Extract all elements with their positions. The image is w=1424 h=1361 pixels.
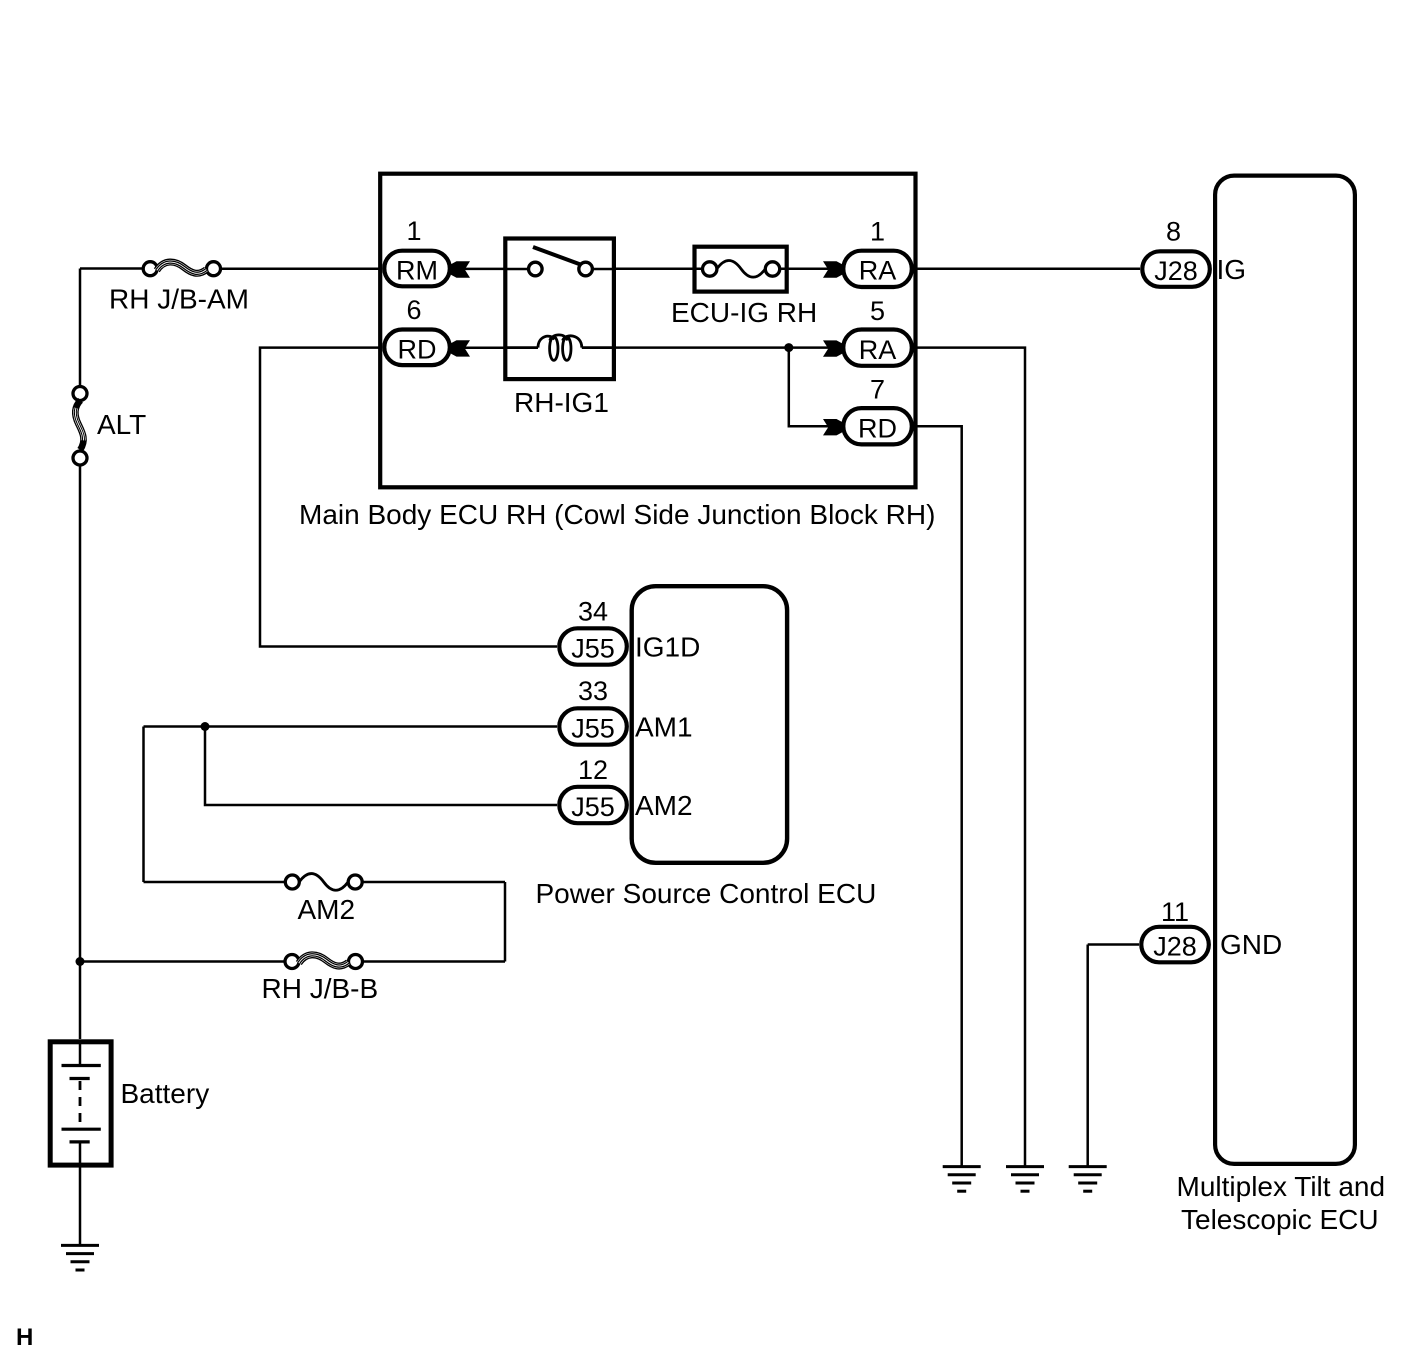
svg-text:RH J/B-B: RH J/B-B: [262, 973, 379, 1004]
fuse ECU-IG RH: [693, 247, 790, 292]
arrow into RD7: [823, 419, 843, 435]
svg-text:RM: RM: [396, 256, 438, 286]
fusible link ALT: [73, 387, 87, 466]
wire coil to RA5: [616, 346, 829, 349]
svg-text:ALT: ALT: [97, 409, 146, 440]
wire battery feed top horizontal: [80, 267, 382, 270]
svg-text:RD: RD: [858, 413, 897, 443]
relay switch contacts: [529, 262, 543, 276]
svg-text:Power Source Control ECU: Power Source Control ECU: [536, 878, 877, 909]
arrow into RM: [450, 261, 470, 277]
wire AM1 down to AM2 fuse: [142, 727, 145, 883]
svg-text:IG1D: IG1D: [635, 632, 700, 663]
fusible link RH J/B-B: [285, 955, 363, 969]
svg-text:J55: J55: [571, 634, 615, 664]
svg-text:AM1: AM1: [635, 712, 693, 743]
svg-text:12: 12: [578, 755, 608, 785]
svg-text:6: 6: [406, 295, 421, 325]
wire AM1 to J55 pin 33: [144, 725, 558, 728]
svg-text:33: 33: [578, 676, 608, 706]
arrow into RA1: [823, 261, 843, 277]
wire RM arrow to relay: [465, 268, 504, 271]
svg-text:RH-IG1: RH-IG1: [514, 387, 609, 418]
pin J28 (8): [1142, 251, 1210, 286]
wire RH J/B-B row: [80, 960, 505, 963]
pin RA (5): [843, 330, 912, 366]
svg-text:RA: RA: [859, 335, 897, 365]
svg-text:Main Body ECU RH (Cowl Side Ju: Main Body ECU RH (Cowl Side Junction Blo…: [299, 499, 935, 530]
svg-text:34: 34: [578, 597, 608, 627]
relay RH-IG1 box: [505, 239, 614, 380]
ground 2 (RA5): [1006, 1167, 1044, 1192]
svg-text:GND: GND: [1220, 929, 1282, 960]
pin RM (1): [384, 251, 450, 287]
junction node battery / RH J/B-B: [76, 957, 85, 966]
svg-text:J28: J28: [1154, 256, 1198, 286]
pin J55 (34): [559, 628, 627, 664]
ground 3 (J28 GND): [1069, 1167, 1107, 1192]
svg-text:H: H: [16, 1324, 33, 1351]
wire fuse to RA1: [789, 267, 828, 270]
wire AM2 fuse row: [144, 881, 506, 884]
pin J55 (33): [559, 708, 627, 744]
wire RA5 to ground 2: [914, 348, 1025, 1167]
fusible link RH J/B-AM: [143, 262, 220, 276]
pin RD (6): [384, 330, 450, 366]
wire RA1 to J28 pin 8: [914, 267, 1140, 270]
svg-text:AM2: AM2: [635, 790, 693, 821]
svg-text:Battery: Battery: [121, 1078, 210, 1109]
svg-text:RA: RA: [859, 256, 897, 286]
wire battery to ground: [79, 1142, 82, 1246]
wire relay to fuse: [616, 267, 693, 270]
pin RA (1): [843, 251, 912, 287]
relay coil: [504, 335, 617, 360]
svg-text:8: 8: [1166, 217, 1181, 247]
svg-text:7: 7: [870, 375, 885, 405]
wire RD6 arrow to relay coil: [465, 347, 504, 350]
Power Source Control ECU box: [632, 586, 787, 863]
svg-text:1: 1: [870, 217, 885, 247]
relay switch contact wires: [504, 268, 617, 271]
pin J28 (11): [1141, 927, 1209, 963]
svg-text:11: 11: [1161, 897, 1189, 927]
wire J28 pin 11 to ground 3: [1088, 945, 1139, 1167]
svg-text:AM2: AM2: [298, 894, 356, 925]
svg-text:5: 5: [870, 296, 885, 326]
svg-text:ECU-IG RH: ECU-IG RH: [671, 297, 817, 328]
svg-text:RD: RD: [398, 335, 437, 365]
svg-text:RH J/B-AM: RH J/B-AM: [109, 284, 249, 315]
Multiplex Tilt and Telescopic ECU box: [1215, 176, 1355, 1164]
pin RD (7): [843, 408, 912, 444]
svg-text:Multiplex Tilt and: Multiplex Tilt and: [1177, 1171, 1386, 1202]
pin J55 (12): [559, 787, 627, 823]
wire AM2 fuse to RH J/B-B: [504, 882, 507, 962]
junction node RA5/RD7: [784, 343, 793, 352]
junction node AM1/AM2: [201, 722, 210, 731]
wire RD7 to ground 1: [914, 426, 962, 1166]
battery: [50, 1042, 111, 1166]
svg-text:J55: J55: [571, 714, 615, 744]
ground 1 (RD7): [943, 1167, 981, 1192]
svg-text:J28: J28: [1153, 932, 1197, 962]
Main Body ECU RH box: [380, 174, 915, 488]
svg-text:IG: IG: [1217, 254, 1247, 285]
svg-text:Telescopic ECU: Telescopic ECU: [1181, 1204, 1379, 1235]
fuse AM2: [285, 874, 362, 891]
svg-text:J55: J55: [571, 792, 615, 822]
arrow into RD: [450, 340, 470, 356]
arrow into RA5: [823, 340, 843, 356]
wire RD6 to J55 pin 34 IG1D: [260, 348, 557, 647]
svg-text:1: 1: [406, 216, 421, 246]
wire AM2 branch to J55 pin 12: [205, 727, 557, 806]
relay switch blade: [533, 247, 581, 265]
ground battery: [61, 1245, 99, 1270]
wire left vertical battery main: [79, 269, 82, 1040]
wire node to RD7: [789, 348, 829, 427]
